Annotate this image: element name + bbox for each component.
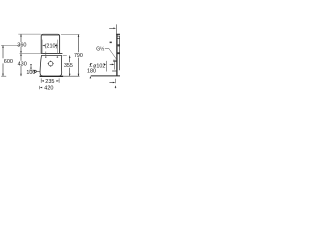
dim 235 arrows: [41, 80, 44, 82]
water inlet circle: [34, 70, 36, 72]
top right dim line: [109, 27, 113, 29]
dim 430 line: [20, 54, 22, 77]
svg-text:180: 180: [87, 69, 96, 75]
dim (210) ext lines: [42, 40, 58, 54]
dim 360 ext top: [18, 33, 41, 35]
bowl left side: [40, 55, 43, 76]
ext 430 mid: [20, 52, 41, 54]
top right ext line: [116, 24, 118, 34]
dim 360 line: [20, 34, 22, 53]
hinge dot left: [45, 52, 47, 56]
cistern back edge (cropped): [119, 36, 121, 70]
cistern outline: [41, 34, 59, 53]
svg-text:100: 100: [26, 70, 35, 76]
svg-text:235: 235: [45, 79, 54, 85]
floor line: [40, 75, 64, 77]
below floor dim arrow: [109, 82, 113, 84]
dim 235 ext lines: [41, 78, 59, 83]
dim 100 line: [30, 64, 32, 68]
fixing hole: [48, 61, 54, 67]
svg-text:420: 420: [44, 86, 53, 92]
bowl rim line: [41, 54, 61, 56]
svg-text:430: 430: [18, 61, 27, 67]
svg-text:G½: G½: [96, 46, 105, 53]
dim 600 ext top: [1, 44, 20, 46]
dim 790 ext top: [61, 33, 79, 35]
floor line right: [91, 75, 120, 77]
dim 180 ext: [89, 66, 92, 68]
dim 180 bottom arrow: [90, 76, 92, 78]
bowl rear junction lines: [113, 60, 117, 62]
dim 420 arrow: [40, 87, 43, 89]
below floor up arrow: [115, 87, 117, 88]
valve detail: [117, 52, 120, 54]
flush lever: [110, 42, 112, 44]
below floor ext line: [115, 79, 117, 84]
lid bottom: [117, 35, 120, 37]
dim (210) arrows: [42, 45, 45, 47]
dim 355 ext: [63, 54, 67, 56]
svg-text:600: 600: [4, 59, 13, 65]
G half leader: [105, 48, 116, 59]
svg-text:790: 790: [74, 53, 83, 59]
valve detail upper: [118, 44, 120, 46]
svg-text:(210): (210): [45, 43, 58, 49]
floor ext left: [1, 75, 6, 77]
dim 600 line: [2, 46, 4, 77]
cistern body line: [117, 37, 120, 39]
dim 180 top arrow: [90, 63, 92, 64]
cistern front face: [116, 34, 118, 76]
dim o102 arrow: [110, 63, 113, 65]
bowl right side: [59, 55, 62, 76]
inlet stub: [36, 70, 40, 72]
svg-text:355: 355: [64, 63, 73, 69]
hinge dot right: [57, 56, 58, 57]
dim 355 line: [69, 56, 71, 77]
dim 100 ext: [29, 69, 35, 71]
dim o102 ext lines: [106, 61, 114, 72]
lid top: [116, 33, 120, 35]
dim 790 line: [78, 35, 80, 77]
seat top line: [41, 52, 63, 54]
floor ext right to dim lines: [63, 75, 79, 77]
outlet top dash: [112, 70, 116, 72]
